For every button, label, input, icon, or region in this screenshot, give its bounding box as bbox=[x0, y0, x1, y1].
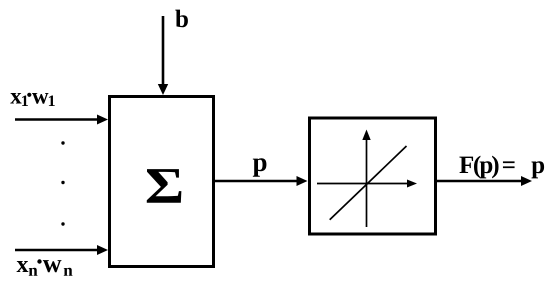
graph vertical axis bbox=[366, 139, 368, 227]
output arrowhead bbox=[521, 176, 532, 186]
transfer function box bbox=[310, 118, 436, 234]
bias wire bbox=[162, 16, 165, 86]
graph horizontal axis arrowhead bbox=[407, 180, 417, 188]
arrowhead p bbox=[297, 176, 308, 186]
label b bbox=[175, 10, 188, 28]
output wire bbox=[437, 180, 521, 183]
graph vertical axis arrowhead bbox=[362, 130, 370, 141]
dot 2 bbox=[61, 181, 64, 184]
label F(p) = p bbox=[459, 156, 544, 179]
label p bbox=[253, 158, 267, 176]
input arrowhead xnwn bbox=[97, 245, 108, 255]
wire p bbox=[215, 180, 297, 183]
dot 1 bbox=[61, 141, 64, 144]
input wire x1w1 bbox=[15, 118, 98, 121]
graph diagonal line bbox=[330, 146, 407, 220]
input wire xnwn bbox=[15, 249, 98, 252]
label x1·w1 bbox=[10, 93, 54, 106]
dot 3 bbox=[61, 222, 64, 225]
bias arrowhead bbox=[158, 84, 168, 95]
input arrowhead x1w1 bbox=[97, 115, 108, 125]
label xn·wn bbox=[17, 259, 73, 276]
graph horizontal axis bbox=[317, 183, 408, 185]
summation box bbox=[110, 97, 214, 267]
sigma symbol bbox=[147, 169, 182, 203]
